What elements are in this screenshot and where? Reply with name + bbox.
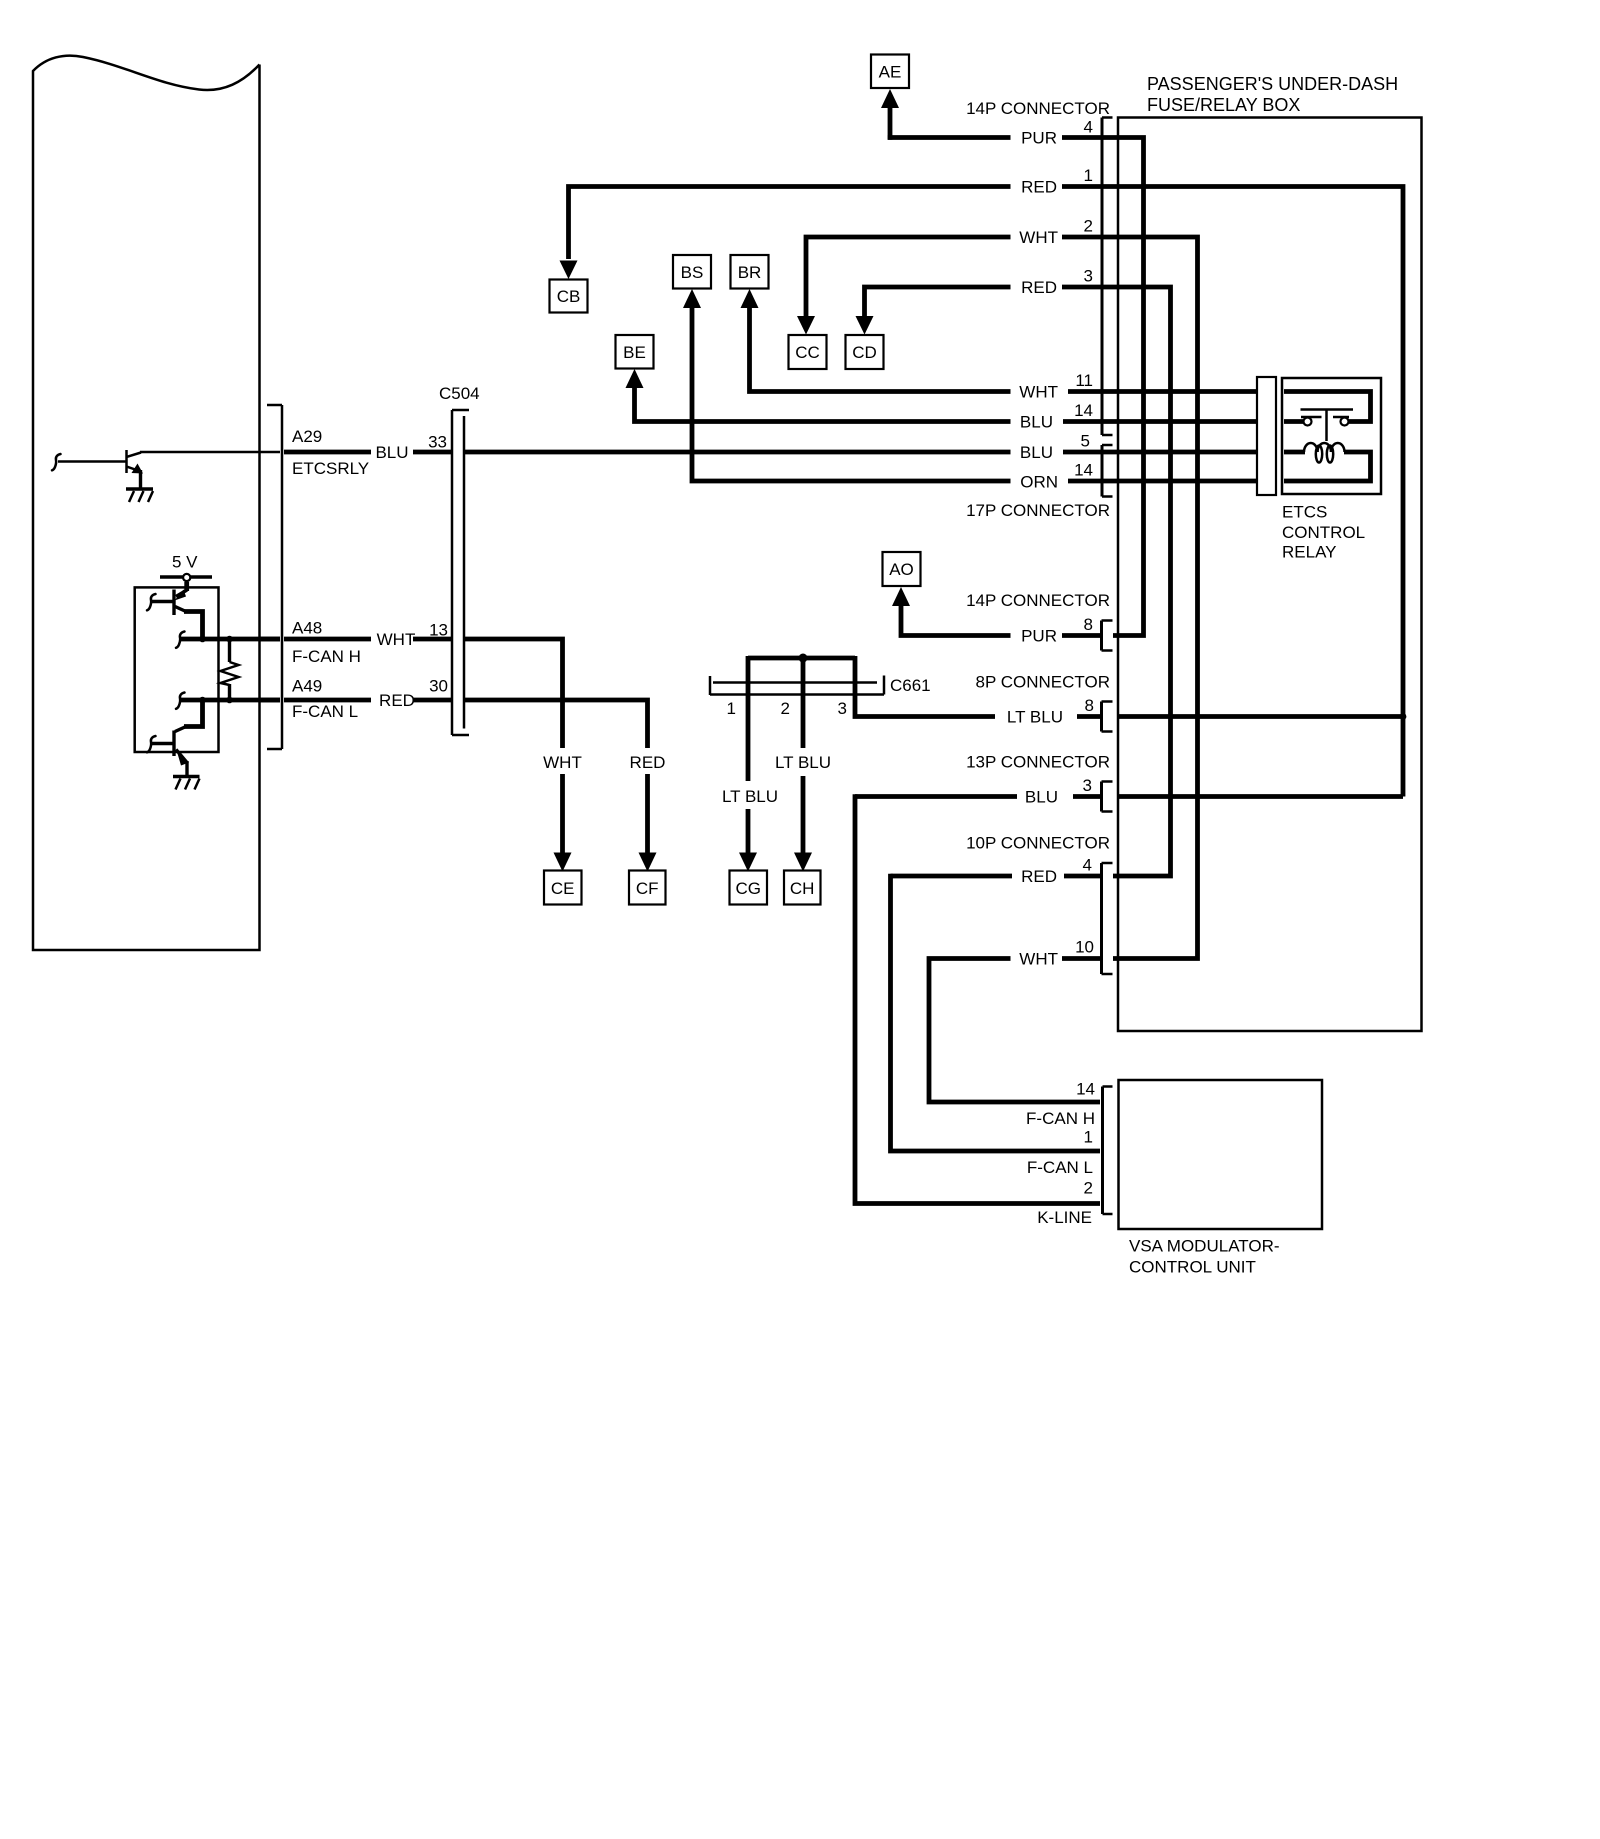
svg-text:BE: BE	[623, 343, 646, 362]
svg-text:2: 2	[781, 699, 790, 718]
svg-text:17P CONNECTOR: 17P CONNECTOR	[966, 501, 1110, 520]
hook at Q2 base	[147, 594, 156, 610]
svg-text:RED: RED	[379, 691, 415, 710]
wire ORN pin14 inside box to relay	[1118, 479, 1257, 484]
svg-text:4: 4	[1084, 118, 1093, 137]
destination box CC	[789, 335, 827, 369]
wire BLU (13P pin 3) run and drop at x=855	[855, 794, 1403, 1203]
svg-text:C504: C504	[439, 384, 480, 403]
svg-text:11: 11	[1075, 371, 1093, 390]
ETCS control relay connector bracket	[1257, 377, 1276, 495]
wire RED pin3 inside box (down to 10P pin 4)	[1113, 287, 1171, 876]
svg-text:ETCS: ETCS	[1282, 503, 1327, 522]
junction dot on jumper	[799, 654, 808, 663]
svg-text:BS: BS	[681, 263, 704, 282]
svg-text:13: 13	[429, 621, 448, 640]
arrow into BS	[683, 289, 701, 308]
CAN driver inner box	[135, 587, 219, 752]
ETCS control relay box	[1282, 378, 1381, 494]
destination box AO	[883, 552, 921, 586]
svg-text:WHT: WHT	[1019, 950, 1058, 969]
svg-text:F-CAN H: F-CAN H	[1026, 1109, 1095, 1128]
junction dots on F-CAN H	[199, 636, 206, 643]
svg-text:30: 30	[429, 677, 448, 696]
arrow into BR	[741, 289, 759, 308]
svg-text:1: 1	[1084, 166, 1093, 185]
arrow into AO	[892, 587, 910, 606]
svg-text:8P CONNECTOR: 8P CONNECTOR	[976, 673, 1110, 692]
wire WHT (17P pin 11) riser to BR	[750, 306, 1011, 392]
relay internal wiring (contact side)	[1284, 392, 1371, 422]
VSA connector bracket	[1103, 1087, 1113, 1215]
svg-text:F-CAN H: F-CAN H	[292, 647, 361, 666]
svg-text:CH: CH	[790, 879, 815, 898]
svg-text:ETCSRLY: ETCSRLY	[292, 459, 369, 478]
PASSENGER'S UNDER-DASH FUSE/RELAY BOX title	[1147, 74, 1398, 115]
svg-text:BLU: BLU	[1020, 413, 1053, 432]
ETCS CONTROL RELAY label	[1282, 503, 1365, 562]
arrow into CC	[797, 316, 815, 335]
svg-text:3: 3	[1083, 776, 1092, 795]
destination box CB	[550, 280, 588, 313]
fuse/relay box outline	[1118, 118, 1422, 1032]
svg-text:LT BLU: LT BLU	[722, 787, 778, 806]
svg-text:CG: CG	[735, 879, 761, 898]
destination box CD	[846, 335, 884, 369]
svg-text:14: 14	[1074, 401, 1093, 420]
wire F-CAN H internal (y=639)	[181, 637, 281, 642]
wire RED pin1 inside box (right side riser)	[1118, 187, 1403, 797]
wire A48 WHT segment (bracket to C504)	[259, 637, 452, 642]
transistor Q2 (PNP, F-CAN H driver)	[152, 590, 203, 640]
arrow into CB	[560, 261, 578, 280]
svg-text:14: 14	[1074, 461, 1093, 480]
destination box AE	[871, 55, 909, 89]
wire RED (10P pin 4) run and drop at x=890.5	[891, 874, 1101, 1151]
arrow into CD	[856, 316, 874, 335]
VSA MODULATOR-CONTROL UNIT label	[1129, 1237, 1280, 1277]
10P connector bracket (pins 4,10)	[1102, 863, 1113, 974]
svg-text:10: 10	[1075, 938, 1094, 957]
svg-text:CD: CD	[852, 343, 877, 362]
destination box BR	[731, 255, 769, 289]
wire WHT pin11 inside box to relay	[1118, 389, 1257, 394]
svg-text:3: 3	[1084, 267, 1093, 286]
ECM connector bracket A	[267, 405, 282, 749]
svg-text:CE: CE	[551, 879, 575, 898]
svg-text:CONTROL UNIT: CONTROL UNIT	[1129, 1258, 1256, 1277]
svg-text:AE: AE	[879, 63, 902, 82]
destination box CH	[784, 871, 821, 905]
arrow into CE	[554, 853, 572, 872]
resistor R (CAN termination)	[221, 639, 239, 700]
17P connector bracket (pins 5,14)	[1102, 445, 1113, 497]
svg-text:FUSE/RELAY BOX: FUSE/RELAY BOX	[1147, 95, 1300, 115]
svg-text:WHT: WHT	[377, 630, 416, 649]
arrow into AE	[881, 89, 899, 108]
svg-text:14P CONNECTOR: 14P CONNECTOR	[966, 99, 1110, 118]
svg-text:WHT: WHT	[543, 753, 582, 772]
svg-text:5: 5	[1081, 432, 1090, 451]
wire segment WHT pin 11 to connector	[1068, 389, 1118, 394]
svg-text:A29: A29	[292, 427, 322, 446]
14P connector line (pins 4,1,2,3,11,14)	[1102, 118, 1113, 436]
transistor Q3 (NPN, F-CAN L driver)	[152, 700, 203, 776]
relay contact arms and armature bar	[1301, 410, 1354, 442]
13P pin 3 bracket	[1102, 782, 1113, 812]
svg-text:WHT: WHT	[1019, 383, 1058, 402]
svg-text:BLU: BLU	[1020, 443, 1053, 462]
svg-text:CONTROL: CONTROL	[1282, 523, 1365, 542]
wire BLU (17P pin 14) riser to BE	[635, 386, 1011, 422]
wire LT BLU (8P pin 8) label gap segments	[1077, 714, 1403, 719]
svg-text:F-CAN L: F-CAN L	[1027, 1158, 1093, 1177]
wire BLU pin14 inside box to relay	[1118, 419, 1257, 424]
svg-text:RELAY: RELAY	[1282, 543, 1337, 562]
svg-text:3: 3	[838, 699, 847, 718]
relay internal wiring (coil side)	[1284, 452, 1371, 481]
svg-text:33: 33	[428, 433, 447, 452]
wire BLU (17P pin 5) long run from C504	[464, 450, 1011, 455]
arrow into CF	[639, 853, 657, 872]
svg-text:14: 14	[1076, 1080, 1095, 1099]
wire segment ORN pin 14 to connector	[1068, 479, 1118, 484]
wire PUR (14P pin 4) left run to AE	[888, 106, 1118, 140]
svg-text:1: 1	[1084, 1128, 1093, 1147]
svg-text:BR: BR	[738, 263, 762, 282]
junction dot RED1/LT BLU splice	[1400, 713, 1407, 720]
svg-text:RED: RED	[1021, 178, 1057, 197]
svg-text:BLU: BLU	[1025, 788, 1058, 807]
svg-text:4: 4	[1083, 856, 1092, 875]
svg-text:CB: CB	[557, 287, 581, 306]
svg-text:PASSENGER'S UNDER-DASH: PASSENGER'S UNDER-DASH	[1147, 74, 1398, 94]
wire A49 RED segment (bracket to C504)	[259, 698, 452, 703]
wire F-CAN L internal (y=700)	[181, 698, 281, 703]
wire WHT pin2 inside box (down to 10P pin 10)	[1113, 237, 1198, 959]
svg-text:AO: AO	[889, 560, 914, 579]
destination box BE	[616, 335, 654, 369]
relay coil	[1304, 443, 1345, 463]
ECM/PCM box (torn-edge outline)	[33, 56, 260, 950]
wire PUR inside box (pin 4 down to pin 8)	[1113, 138, 1144, 636]
svg-text:1: 1	[727, 699, 736, 718]
destination box CE	[544, 871, 582, 905]
hook at F-CAN L stub	[176, 693, 185, 709]
wire segment BLU pin 14 to connector	[1063, 419, 1118, 424]
svg-text:CC: CC	[795, 343, 820, 362]
svg-text:RED: RED	[1021, 278, 1057, 297]
svg-text:K-LINE: K-LINE	[1037, 1208, 1092, 1227]
wire C661 pin3 down then right to 8P pin 8	[855, 656, 995, 717]
connector C504	[452, 410, 469, 735]
wire RED (14P pin 1) left run to CB	[569, 187, 1119, 260]
wire WHT (14P pin 2) left run to CC	[806, 237, 1118, 317]
svg-text:WHT: WHT	[1019, 228, 1058, 247]
svg-text:BLU: BLU	[375, 443, 408, 462]
hook at Q3 base	[147, 736, 156, 752]
wire PUR (14P pin 8) to AO	[901, 604, 1100, 636]
wire A29 BLU segment (bracket to C504)	[284, 450, 452, 455]
wire RED (14P pin 3) left run to CD	[865, 287, 1119, 317]
power 5V rail symbol	[160, 574, 212, 591]
svg-text:A48: A48	[292, 619, 322, 638]
svg-text:8: 8	[1084, 615, 1093, 634]
14P pin 8 bracket	[1102, 621, 1113, 651]
svg-text:2: 2	[1084, 217, 1093, 236]
VSA modulator-control unit box	[1119, 1080, 1323, 1229]
arrow into CG	[739, 853, 757, 872]
svg-text:10P CONNECTOR: 10P CONNECTOR	[966, 834, 1110, 853]
wire BLU pin5 inside box to relay	[1118, 450, 1257, 455]
wire ORN (17P pin 14) riser to BS	[692, 306, 1011, 481]
wire RED to CF (corner at x=647.5)	[464, 700, 648, 854]
svg-text:C661: C661	[890, 676, 931, 695]
arrow into BE	[626, 369, 644, 388]
wire WHT (10P pin 10) run and drop at x=929	[929, 959, 1100, 1103]
svg-text:ORN: ORN	[1020, 473, 1058, 492]
svg-text:PUR: PUR	[1021, 129, 1057, 148]
hook (wire stub) at Q1 base	[52, 454, 61, 470]
svg-text:RED: RED	[1021, 867, 1057, 886]
destination box CF	[629, 871, 666, 905]
svg-text:LT BLU: LT BLU	[775, 753, 831, 772]
svg-text:LT BLU: LT BLU	[1007, 708, 1063, 727]
svg-text:13P CONNECTOR: 13P CONNECTOR	[966, 753, 1110, 772]
destination box CG	[730, 871, 768, 905]
svg-text:CF: CF	[636, 879, 659, 898]
destination box BS	[673, 255, 711, 289]
svg-text:14P CONNECTOR: 14P CONNECTOR	[966, 591, 1110, 610]
svg-text:RED: RED	[630, 753, 666, 772]
transistor Q1 (NPN, ETCSRLY driver)	[58, 450, 143, 488]
svg-text:A49: A49	[292, 677, 322, 696]
wire segment BLU pin 5 to connector	[1063, 450, 1118, 455]
svg-text:5 V: 5 V	[172, 553, 198, 572]
svg-text:8: 8	[1085, 696, 1094, 715]
wire C661 pin2 LT BLU to CH	[801, 656, 806, 854]
ground G2 (Q3 emitter)	[173, 777, 200, 790]
connector C661 bar	[710, 676, 884, 696]
relay contact terminal circles	[1304, 418, 1349, 426]
ground G1 (Q1 emitter)	[126, 489, 153, 502]
arrow into CH	[794, 853, 812, 872]
hook at F-CAN H stub	[176, 632, 185, 648]
wire jumper above C661 (pins 1-2-3)	[748, 656, 855, 661]
svg-text:PUR: PUR	[1021, 627, 1057, 646]
wire A29 collector to ECM edge (thin, y=452)	[140, 451, 280, 454]
junction dots on F-CAN L	[199, 697, 206, 704]
svg-text:VSA MODULATOR-: VSA MODULATOR-	[1129, 1237, 1280, 1256]
wire WHT to CE (corner at x=562.5)	[464, 639, 563, 854]
wire C661 pin1 LT BLU to CG	[746, 656, 751, 854]
8P pin 8 bracket	[1102, 702, 1113, 732]
svg-text:2: 2	[1084, 1179, 1093, 1198]
svg-text:F-CAN L: F-CAN L	[292, 702, 358, 721]
